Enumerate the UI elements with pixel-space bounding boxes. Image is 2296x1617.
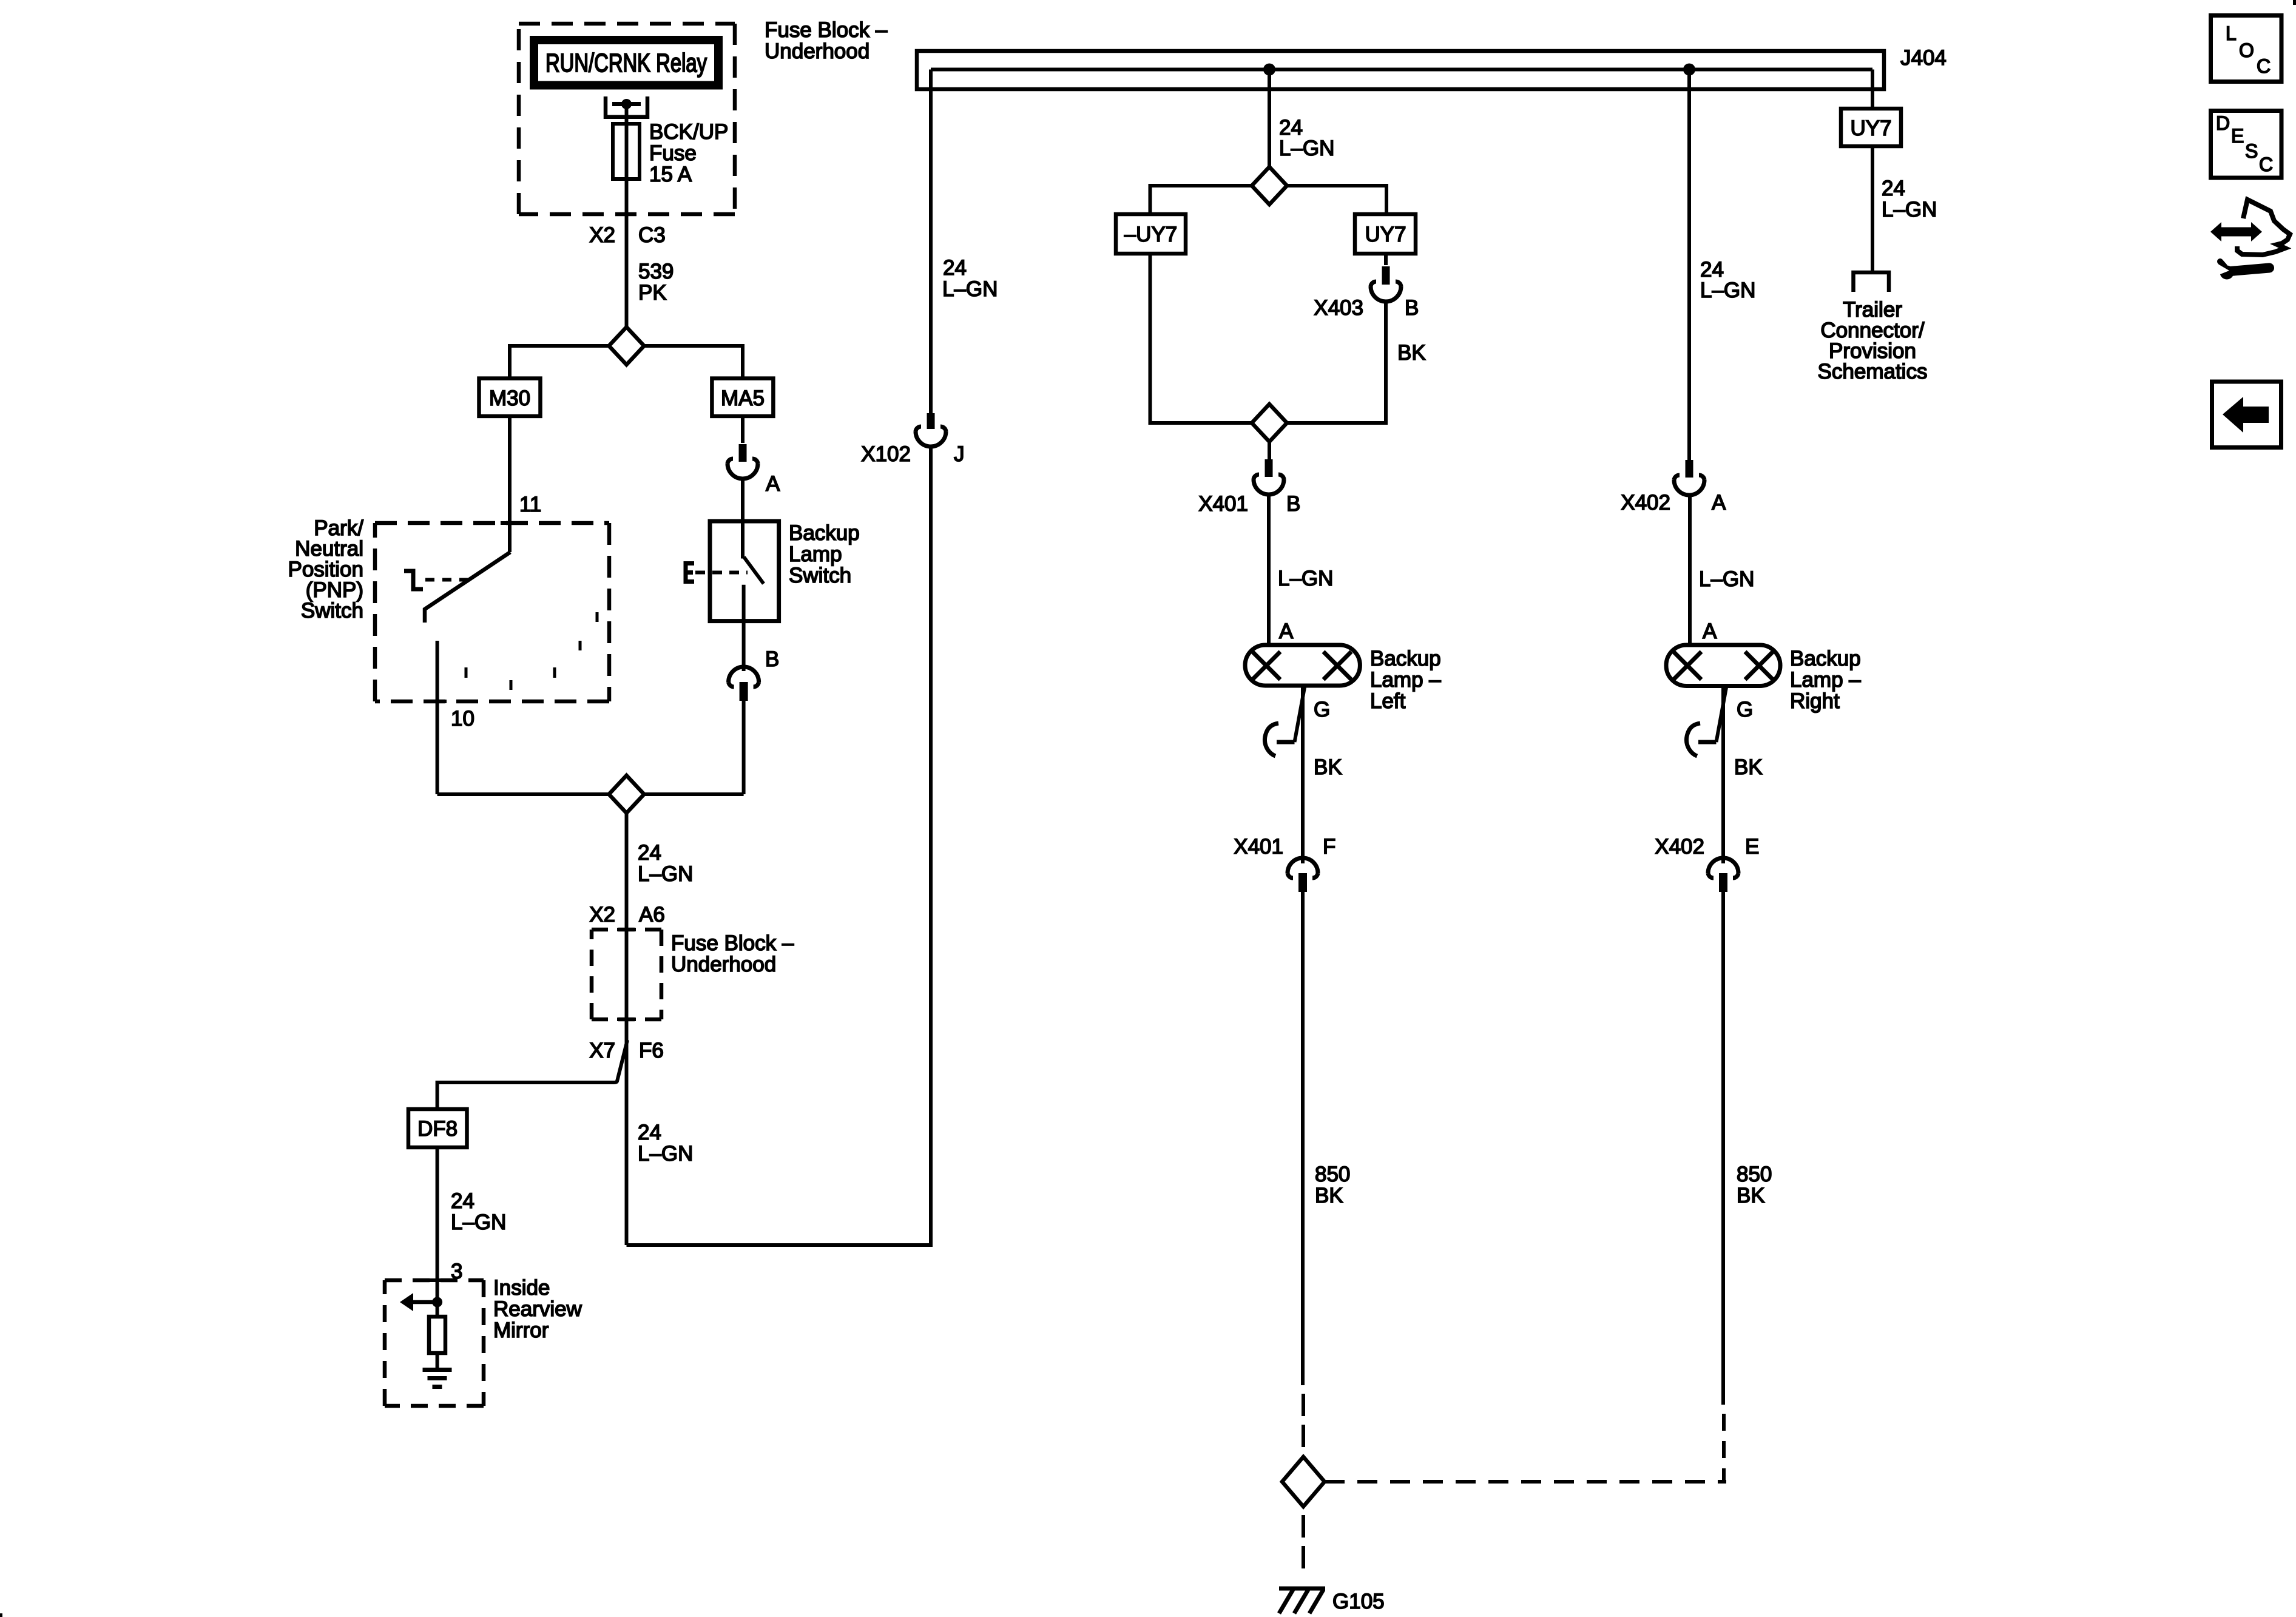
wire UY7 to trailer connector (1871, 146, 1874, 271)
svg-text:L–GN: L–GN (1699, 567, 1754, 591)
svg-text:Fuse: Fuse (649, 141, 697, 165)
svg-text:L–GN: L–GN (1882, 198, 1937, 221)
svg-text:BK: BK (1397, 341, 1426, 365)
svg-text:B: B (765, 647, 779, 671)
wire F6 down to bus return (625, 1019, 629, 1245)
net MA5 box (712, 379, 773, 416)
svg-text:24: 24 (451, 1189, 474, 1213)
relay contact blade (612, 102, 641, 106)
PNP cam bracket (404, 571, 423, 589)
svg-text:J: J (954, 442, 965, 466)
svg-text:Mirror: Mirror (493, 1318, 549, 1342)
svg-text:Rearview: Rearview (493, 1297, 582, 1321)
svg-text:Underhood: Underhood (765, 39, 869, 63)
svg-text:A: A (1712, 491, 1726, 515)
fuse BCK/UP 15A (625, 124, 629, 179)
svg-text:BK: BK (1314, 755, 1342, 779)
wire relay to fuse (625, 104, 629, 124)
resistor R mirror load (429, 1317, 445, 1353)
svg-text:B: B (1405, 296, 1419, 320)
svg-text:BK: BK (1734, 755, 1763, 779)
svg-text:A: A (766, 472, 780, 496)
wire to resistor (436, 1302, 439, 1317)
svg-text:Switch: Switch (789, 564, 851, 587)
node relay output junction dot (621, 99, 632, 109)
pin tick at fuse block boundary A6 (617, 928, 636, 931)
wire lamp left ground lead (1301, 686, 1305, 863)
wire splice to fuse block X2 A6 (625, 813, 629, 930)
off-page trailer connector bracket (1854, 272, 1889, 292)
svg-text:X7: X7 (589, 1039, 615, 1062)
icon schematic navigation (arrow hand wrench) (2210, 200, 2290, 280)
svg-text:850: 850 (1737, 1163, 1772, 1186)
svg-text:X2: X2 (589, 903, 615, 927)
svg-text:Backup: Backup (789, 521, 860, 545)
svg-text:Backup: Backup (1790, 647, 1861, 670)
svg-text:D: D (2216, 112, 2230, 134)
svg-text:X102: X102 (861, 442, 911, 466)
PNP alternate position dashes (466, 612, 597, 690)
svg-text:L: L (2226, 22, 2237, 44)
icon DESC box (2211, 111, 2282, 178)
svg-text:C: C (2259, 154, 2273, 175)
svg-text:L–GN: L–GN (1700, 279, 1755, 302)
connector pin A (backup lamp switch) (739, 444, 747, 462)
wire connector B down to junction (742, 701, 746, 794)
inside rearview mirror dashed box (385, 1280, 484, 1406)
node splice on bus (left lamp feed) (1263, 64, 1275, 76)
wire -UY7 to lower splice (1150, 254, 1252, 423)
svg-text:–UY7: –UY7 (1124, 223, 1178, 246)
svg-text:C: C (2257, 55, 2271, 77)
wire dashed to ground splice (1302, 1394, 1305, 1447)
wire dashed down to ground run (1722, 1414, 1726, 1482)
net M30 box (479, 379, 541, 416)
icon LOC box (2211, 16, 2282, 82)
switch S (Backup Lamp Switch) box (710, 521, 779, 621)
svg-text:A: A (1279, 619, 1294, 643)
wire dashed splice to ground (1302, 1515, 1305, 1568)
wire splice to -UY7 branch (1150, 186, 1252, 214)
svg-text:11: 11 (519, 493, 541, 516)
ground earth symbol (423, 1370, 452, 1387)
wire X402 to lamp right (1688, 493, 1692, 645)
relay K (RUN/CRNK Relay) box (534, 40, 718, 86)
node splice S2 diamond (609, 775, 644, 813)
connector pin X402 E (dome) (1708, 858, 1738, 873)
connector pin B (dome) (729, 667, 759, 682)
svg-text:Schematics: Schematics (1818, 360, 1928, 383)
svg-text:Underhood: Underhood (671, 953, 776, 976)
wire splice to UY7 branch (1287, 186, 1386, 214)
wire splice to connector X401 (1268, 442, 1271, 459)
wire fuse output through connector X2 C3 (625, 179, 629, 327)
net UY7 box (trailer) (1841, 109, 1901, 146)
svg-text:O: O (2239, 39, 2254, 61)
svg-text:24: 24 (638, 841, 661, 865)
wire J404 inner bus line (931, 68, 1872, 72)
wire fuse block pass-through (625, 930, 629, 1019)
wire branch to DF8 (437, 1040, 627, 1109)
svg-text:G: G (1314, 698, 1330, 721)
pin tick at PNP bottom boundary (428, 700, 447, 703)
bus J404 outline (917, 51, 1884, 89)
svg-text:BK: BK (1315, 1184, 1343, 1207)
pin tick at PNP boundary (501, 521, 519, 525)
fuse block underhood dashed box (519, 24, 735, 214)
wire switch to connector B (742, 621, 746, 671)
wire X401 to lamp left (1267, 493, 1271, 645)
svg-text:Left: Left (1370, 689, 1406, 713)
wire junction horizontal (437, 792, 744, 796)
PNP switch dashed box (375, 523, 609, 701)
wire M30 to PNP switch pin 11 (508, 416, 512, 552)
svg-text:F6: F6 (639, 1039, 664, 1062)
svg-text:A6: A6 (639, 903, 665, 927)
svg-text:BK: BK (1737, 1184, 1765, 1207)
svg-text:24: 24 (638, 1121, 661, 1144)
svg-text:E: E (2231, 125, 2244, 147)
wire bus drop to splice S3 (1268, 70, 1271, 167)
svg-text:24: 24 (943, 256, 967, 280)
svg-text:Lamp –: Lamp – (1370, 668, 1441, 692)
lamp E2 Backup Lamp Right (1666, 645, 1780, 686)
svg-text:Switch: Switch (301, 599, 363, 623)
svg-text:J404: J404 (1900, 46, 1947, 70)
connector pin X401 B (1265, 459, 1273, 477)
svg-text:Right: Right (1790, 689, 1840, 713)
wire switch input stub (741, 521, 745, 559)
wire resistor to ground (436, 1353, 439, 1368)
wire UY7 to connector X403 (1384, 254, 1388, 265)
svg-text:G105: G105 (1332, 1590, 1385, 1613)
svg-text:UY7: UY7 (1850, 116, 1891, 140)
svg-text:L–GN: L–GN (1279, 137, 1334, 160)
svg-text:Lamp –: Lamp – (1790, 668, 1861, 692)
PNP mechanical link dashed (425, 578, 468, 582)
wire PNP pin 10 output (436, 641, 439, 794)
svg-text:L–GN: L–GN (638, 862, 693, 886)
connector pin X402 A (1686, 460, 1693, 478)
node mirror junction dot (432, 1297, 442, 1308)
svg-text:G: G (1737, 698, 1753, 721)
wire splice to M30 and MA5 (510, 346, 743, 379)
svg-text:15 A: 15 A (649, 163, 692, 186)
node splice S4 diamond (1252, 404, 1287, 442)
connector pin X102 J (927, 413, 935, 429)
lamp socket pigtail hook (1717, 687, 1727, 742)
svg-text:X402: X402 (1621, 491, 1670, 515)
wire bus drop to connector X402 (1687, 70, 1691, 461)
svg-text:UY7: UY7 (1365, 223, 1406, 246)
switch mechanical link dashed (695, 571, 748, 575)
node ground splice diamond (1282, 1457, 1325, 1507)
svg-text:539: 539 (638, 260, 674, 283)
node splice S1 diamond (609, 327, 644, 365)
wire X102 down and return to F6 leg (627, 445, 931, 1245)
wire connector A to switch (741, 477, 745, 521)
switch blade (744, 557, 764, 584)
wire MA5 to connector A (741, 416, 745, 443)
svg-text:C3: C3 (638, 223, 666, 247)
net -UY7 box (1116, 214, 1186, 254)
svg-text:X401: X401 (1234, 835, 1283, 859)
fuse block underhood small dashed box (592, 930, 661, 1019)
lamp socket pigtail hook (1295, 687, 1305, 742)
svg-text:L–GN: L–GN (942, 277, 998, 301)
pin tick at fuse block boundary F6 (617, 1018, 636, 1021)
svg-text:10: 10 (451, 707, 474, 731)
net UY7 box (1355, 214, 1416, 254)
svg-text:850: 850 (1315, 1163, 1350, 1186)
svg-text:MA5: MA5 (721, 387, 765, 410)
wire X401 F down (1301, 892, 1305, 1385)
svg-text:Inside: Inside (493, 1276, 550, 1300)
svg-text:24: 24 (1882, 177, 1905, 200)
svg-text:A: A (1703, 619, 1717, 643)
wire bus to UY7 provision (1871, 70, 1874, 109)
svg-text:L–GN: L–GN (638, 1142, 693, 1166)
svg-text:L–GN: L–GN (451, 1210, 506, 1234)
relay output cavity bracket (606, 96, 647, 117)
corner scan mark top right (2293, 0, 2296, 5)
wire X402 E down (1721, 892, 1725, 1405)
svg-text:Fuse Block –: Fuse Block – (671, 931, 794, 955)
svg-text:PK: PK (638, 281, 667, 305)
lamp E1 Backup Lamp Left (1245, 645, 1360, 686)
node splice S3 diamond (1252, 167, 1287, 204)
wire DF8 to mirror (436, 1147, 439, 1302)
icon back arrow box (2212, 382, 2281, 448)
svg-text:Lamp: Lamp (789, 542, 842, 566)
wire X403 down to lower splice (1287, 300, 1386, 423)
wire mirror internal feed arrow (411, 1300, 437, 1305)
svg-text:E: E (1745, 835, 1759, 859)
pin tick at mirror boundary (428, 1278, 447, 1282)
svg-text:Backup: Backup (1370, 647, 1441, 670)
svg-text:X2: X2 (589, 223, 615, 247)
svg-text:M30: M30 (489, 387, 530, 410)
svg-text:X401: X401 (1198, 492, 1248, 516)
pin tick at fuse block boundary (617, 212, 636, 216)
svg-text:F: F (1323, 835, 1335, 859)
svg-text:B: B (1286, 492, 1300, 516)
svg-text:X403: X403 (1314, 296, 1363, 320)
svg-text:S: S (2245, 140, 2258, 162)
ground G105 chassis symbol (1279, 1588, 1325, 1613)
node splice on bus (right lamp feed) (1683, 64, 1695, 76)
svg-text:L–GN: L–GN (1278, 567, 1333, 590)
switch cam E mark (686, 564, 694, 582)
PNP switch blade (425, 552, 510, 623)
svg-text:RUN/CRNK Relay: RUN/CRNK Relay (545, 49, 707, 78)
svg-text:X402: X402 (1655, 835, 1704, 859)
wire lamp right ground lead (1721, 686, 1725, 863)
svg-text:DF8: DF8 (417, 1117, 458, 1141)
corner scan mark bottom left (0, 1613, 2, 1617)
connector pin X401 F (dome) (1288, 858, 1318, 873)
wire switch output stub (742, 585, 746, 621)
wire bus to connector X102 (929, 70, 933, 414)
svg-text:Fuse Block –: Fuse Block – (765, 18, 888, 42)
connector pin X403 B (1382, 266, 1390, 285)
svg-text:BCK/UP: BCK/UP (649, 120, 728, 144)
wire dashed ground run to right lamp (1325, 1480, 1726, 1484)
net DF8 box (408, 1109, 467, 1147)
